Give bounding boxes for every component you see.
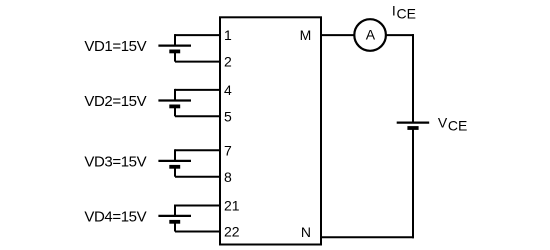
battery VCE short plate [407, 126, 418, 130]
wire pin7 to battery VD3 [175, 149, 221, 151]
battery VD4 short plate [169, 220, 180, 224]
wire riser VD1 top [174, 34, 176, 46]
svg-text:I: I [392, 3, 396, 19]
wire bottom to node N [321, 236, 414, 238]
svg-text:VD1=15V: VD1=15V [84, 38, 146, 55]
svg-text:M: M [300, 27, 312, 43]
wire ammeter to top right corner [386, 34, 414, 36]
svg-text:7: 7 [224, 142, 232, 158]
svg-text:CE: CE [397, 6, 416, 22]
svg-text:8: 8 [224, 169, 232, 185]
wire riser VD3 bottom [174, 167, 176, 177]
wire battery VD4 to pin22 [175, 231, 221, 233]
wire battery VD3 to pin8 [175, 176, 221, 178]
battery VCE long plate [397, 121, 430, 123]
IC box U1 [220, 17, 321, 244]
svg-text:A: A [366, 26, 376, 42]
battery VD1 long plate [158, 44, 191, 46]
wire pin21 to battery VD4 [175, 205, 221, 207]
battery VD2 long plate [158, 99, 191, 101]
wire battery VD2 to pin5 [175, 115, 221, 117]
svg-text:V: V [438, 114, 448, 130]
wire riser VD4 bottom [174, 222, 176, 232]
wire riser VD2 top [174, 89, 176, 101]
wire riser VD3 top [174, 149, 176, 161]
svg-text:CE: CE [448, 118, 467, 134]
svg-text:5: 5 [224, 108, 232, 124]
svg-text:VD4=15V: VD4=15V [84, 208, 146, 225]
wire node M to ammeter [321, 34, 355, 36]
wire riser VD2 bottom [174, 106, 176, 116]
wire pin1 to battery VD1 [175, 34, 221, 36]
wire riser VD1 bottom [174, 51, 176, 61]
svg-text:22: 22 [224, 224, 240, 240]
svg-text:VD2=15V: VD2=15V [84, 93, 146, 110]
svg-text:2: 2 [224, 54, 232, 70]
svg-text:4: 4 [224, 82, 232, 98]
wire right vertical bottom [412, 128, 414, 238]
battery VD4 long plate [158, 215, 191, 217]
wire right vertical top [412, 34, 414, 123]
ammeter A1 circle [354, 19, 386, 51]
svg-text:21: 21 [224, 198, 240, 214]
wire riser VD4 top [174, 205, 176, 216]
wire battery VD1 to pin2 [175, 61, 221, 63]
battery VD3 long plate [158, 160, 191, 162]
battery VD2 short plate [169, 105, 180, 109]
svg-text:VD3=15V: VD3=15V [84, 153, 146, 170]
battery VD1 short plate [169, 50, 180, 54]
battery VD3 short plate [169, 165, 180, 169]
svg-text:1: 1 [224, 27, 232, 43]
wire pin4 to battery VD2 [175, 89, 221, 91]
svg-text:N: N [301, 224, 311, 240]
